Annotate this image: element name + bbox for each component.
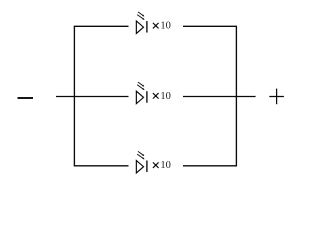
- label x10 (bottom branch): [153, 160, 171, 171]
- wire bottom branch right segment: [183, 165, 237, 167]
- LED top branch (triangle, cathode bar, light arrows): [136, 12, 147, 34]
- wire left rail (left wall of loop): [73, 26, 75, 166]
- label x10 (middle branch): [153, 91, 171, 102]
- wire bottom branch left segment: [74, 165, 129, 167]
- LED middle branch (triangle, cathode bar, light arrows): [136, 82, 147, 104]
- wire top branch right segment: [183, 25, 237, 27]
- LED bottom branch (triangle, cathode bar, light arrows): [136, 151, 147, 173]
- wire right rail (right wall of loop): [235, 26, 237, 166]
- svg-text:10: 10: [160, 91, 171, 102]
- terminal plus: [269, 89, 284, 105]
- wire middle branch left segment (lead from minus terminal): [56, 96, 129, 98]
- svg-text:10: 10: [160, 160, 171, 171]
- label x10 (top branch): [153, 21, 171, 32]
- wire top branch left segment: [74, 25, 129, 27]
- wire middle branch right segment (lead to plus terminal): [183, 96, 256, 98]
- svg-text:10: 10: [160, 21, 171, 32]
- terminal minus: [18, 97, 34, 99]
